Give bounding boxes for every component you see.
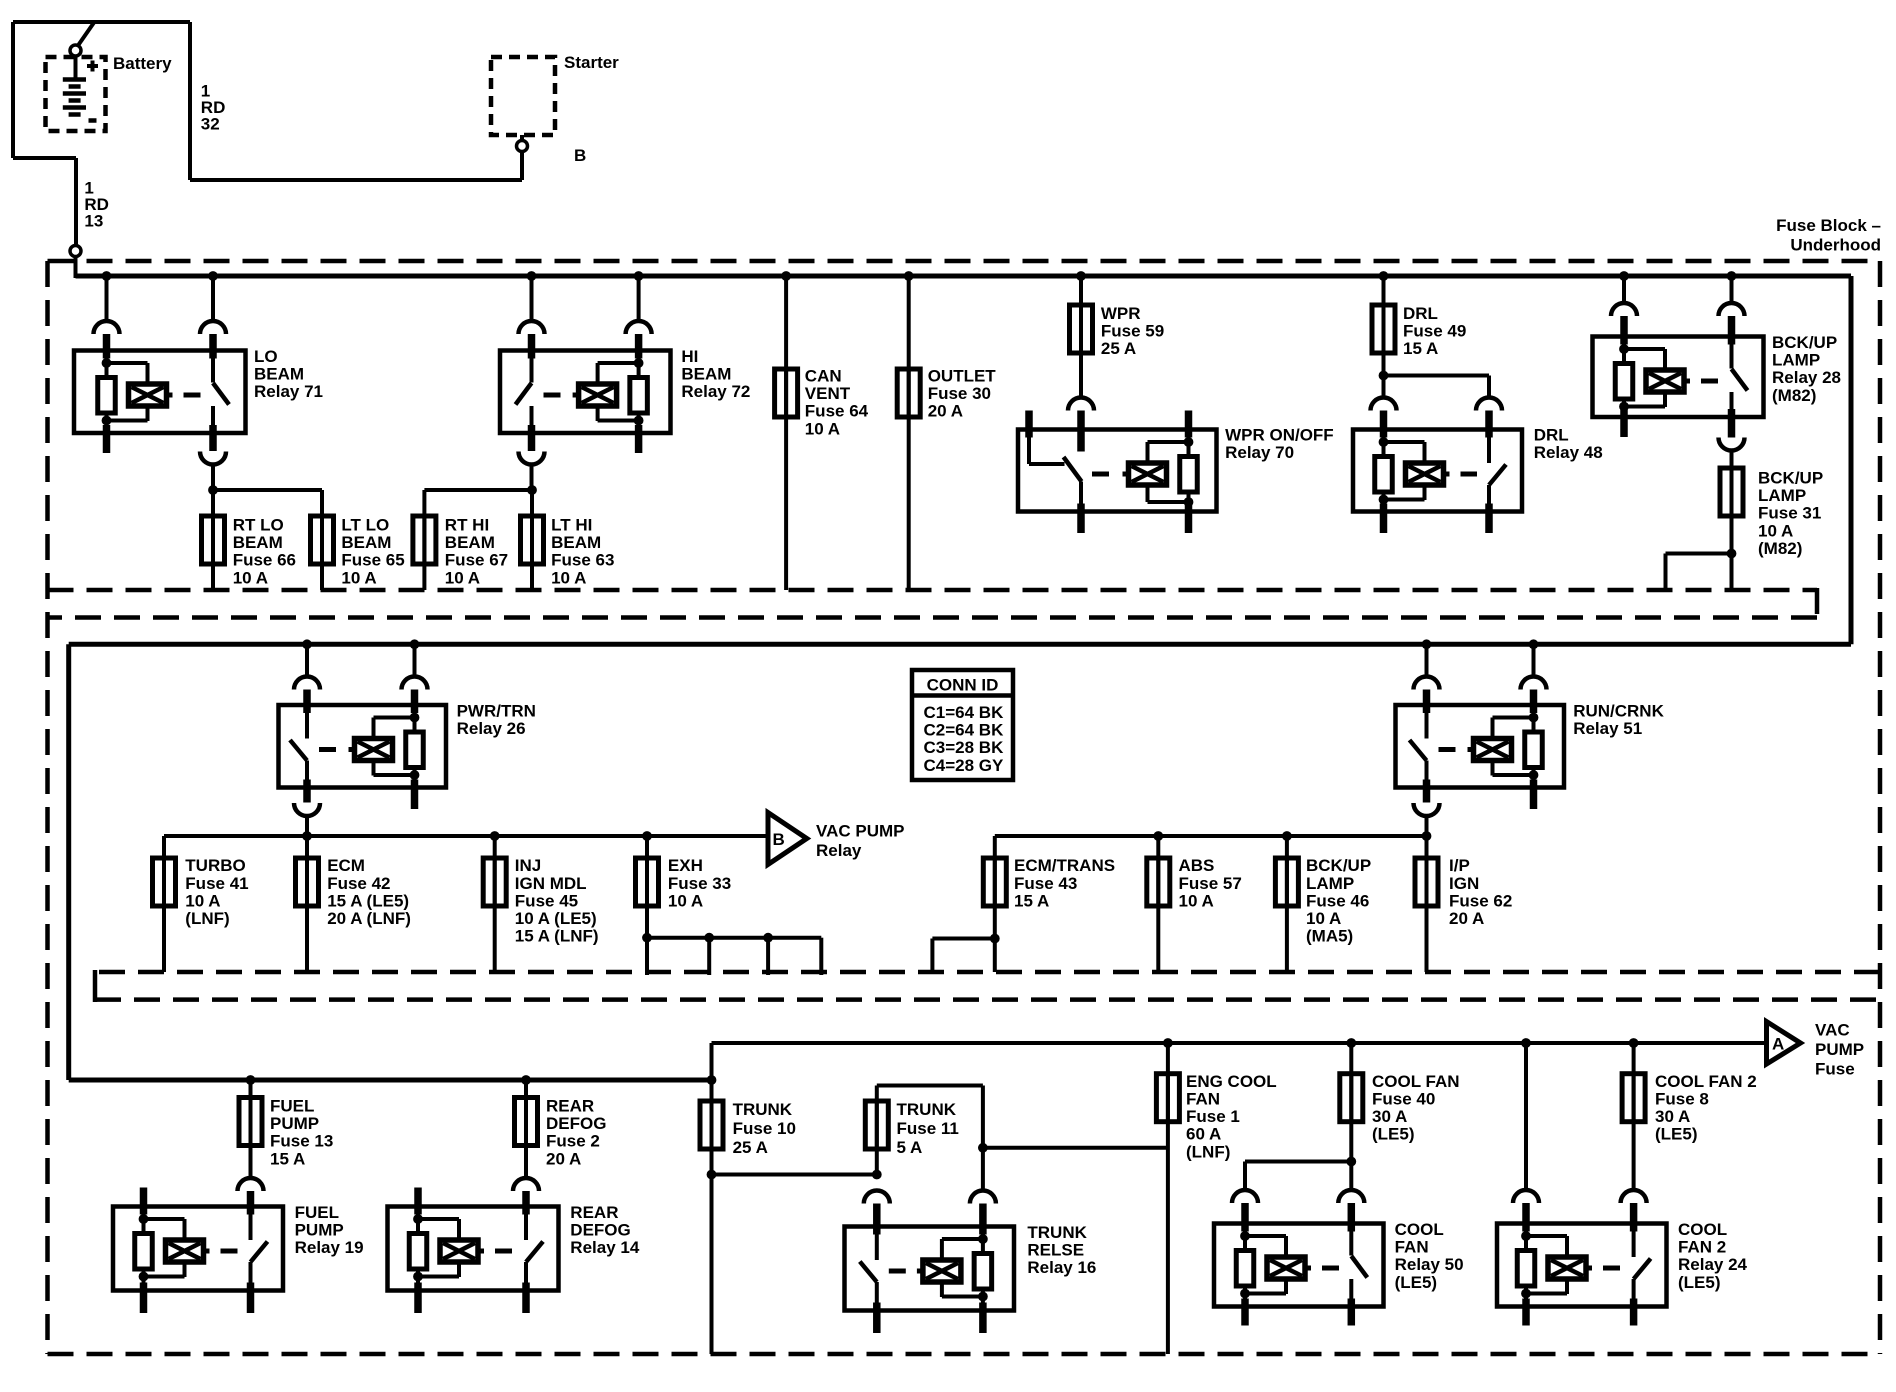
svg-text:10 A (LE5): 10 A (LE5) bbox=[515, 909, 597, 928]
svg-text:Fuse 2: Fuse 2 bbox=[546, 1132, 600, 1151]
resistor (LO BEAM Relay 71) bbox=[98, 378, 116, 414]
fuse F66 RT LO BEAM bbox=[211, 514, 215, 566]
svg-text:20 A: 20 A bbox=[928, 402, 963, 421]
fuse F2 REAR DEFOG bbox=[524, 1096, 528, 1148]
svg-text:VENT: VENT bbox=[805, 384, 851, 403]
connector LO beam output bbox=[200, 452, 226, 465]
node bus tap CAN VENT bbox=[781, 271, 791, 281]
svg-text:Fuse 59: Fuse 59 bbox=[1101, 322, 1164, 341]
wire BCKUP switch pin bbox=[1730, 276, 1734, 303]
svg-text:ECM: ECM bbox=[327, 856, 365, 875]
relay switch (COOL FAN 2 Relay 24) bbox=[1632, 1224, 1636, 1258]
svg-text:Fuse 66: Fuse 66 bbox=[233, 551, 296, 570]
node rail BCKUP fuse46 bbox=[1282, 831, 1292, 841]
svg-text:FAN: FAN bbox=[1186, 1090, 1220, 1109]
svg-text:Fuse Block –: Fuse Block – bbox=[1776, 216, 1881, 235]
connector HI beam pin1 bbox=[519, 321, 545, 334]
svg-text:Fuse 67: Fuse 67 bbox=[445, 551, 508, 570]
coil loop wire (LO BEAM Relay 71) bbox=[107, 361, 148, 365]
svg-text:(LNF): (LNF) bbox=[185, 909, 229, 928]
resistor (WPR relay) bbox=[1187, 430, 1191, 512]
svg-text:10 A: 10 A bbox=[1179, 891, 1214, 910]
wire COOL FAN 2 coil pin bbox=[1524, 1043, 1528, 1190]
wire OUTLET bbox=[907, 276, 911, 590]
svg-text:BEAM: BEAM bbox=[254, 365, 304, 384]
svg-text:BEAM: BEAM bbox=[681, 365, 731, 384]
node rail ABS bbox=[1153, 831, 1163, 841]
battery BAT bbox=[74, 57, 78, 78]
svg-text:Fuse 45: Fuse 45 bbox=[515, 891, 578, 910]
pin stub below PWR/TRN coil bbox=[411, 780, 419, 810]
svg-text:5 A: 5 A bbox=[897, 1138, 923, 1157]
svg-text:Fuse 62: Fuse 62 bbox=[1449, 891, 1512, 910]
node feed REAR DEFOG bbox=[521, 1075, 531, 1085]
relay coil (HI BEAM Relay 72) bbox=[579, 384, 617, 406]
node bus2 tap PWR/TRN switch bbox=[302, 639, 312, 649]
connector BCKUP output bbox=[1719, 438, 1745, 451]
resistor (REAR DEFOG Relay 14) bbox=[409, 1234, 427, 1270]
svg-text:20 A (LNF): 20 A (LNF) bbox=[327, 909, 411, 928]
resistor (TRUNK RELSE Relay 16) bbox=[974, 1254, 992, 1290]
svg-text:Relay 14: Relay 14 bbox=[570, 1238, 640, 1257]
svg-text:10 A: 10 A bbox=[805, 419, 840, 438]
battery plus bbox=[87, 64, 98, 68]
svg-text:10 A: 10 A bbox=[185, 891, 220, 910]
svg-text:Fuse 40: Fuse 40 bbox=[1372, 1090, 1435, 1109]
wire bus battery feed section1 bbox=[76, 274, 1852, 279]
connector TRUNK coil pin bbox=[970, 1191, 996, 1204]
relay switch (DRL Relay 48) bbox=[1487, 430, 1491, 464]
coil loop wire (COOL FAN 2 Relay 24) bbox=[1526, 1234, 1567, 1238]
pin stub FUEL PUMP coil top bbox=[140, 1188, 148, 1215]
svg-text:TRUNK: TRUNK bbox=[1027, 1223, 1087, 1242]
wire hi beam fuse link bbox=[527, 485, 537, 495]
wire bus section2 bbox=[69, 642, 1851, 647]
divider section1/2 bbox=[48, 588, 1818, 593]
fuse F33 EXH bbox=[645, 836, 649, 975]
fuse F46 BCK/UP LAMP bbox=[1285, 836, 1289, 972]
svg-text:Fuse 46: Fuse 46 bbox=[1306, 891, 1369, 910]
divider section2/3 bbox=[95, 970, 1880, 975]
svg-text:FAN 2: FAN 2 bbox=[1678, 1238, 1726, 1257]
resistor (FUEL PUMP Relay 19) bbox=[135, 1234, 153, 1270]
fuse F57 ABS bbox=[1156, 836, 1160, 972]
svg-text:Fuse 11: Fuse 11 bbox=[897, 1119, 959, 1138]
fuse F45 INJ IGN MDL bbox=[493, 836, 497, 972]
wire right side feed bbox=[1849, 276, 1854, 644]
resistor (BCK/UP LAMP Relay 28) bbox=[1615, 364, 1633, 400]
wire CAN VENT bbox=[784, 276, 788, 590]
relay switch (WPR ON/OFF Relay 70) bbox=[1027, 437, 1031, 464]
node feed FUEL PUMP bbox=[246, 1075, 256, 1085]
relay box (TRUNK RELSE Relay 16) bbox=[845, 1227, 1015, 1311]
node bus tap LO beam coil bbox=[102, 271, 112, 281]
svg-text:Fuse 49: Fuse 49 bbox=[1403, 322, 1466, 341]
node fuse43 branch bbox=[990, 934, 1000, 944]
svg-text:Fuse 64: Fuse 64 bbox=[805, 402, 869, 421]
svg-text:Starter: Starter bbox=[564, 53, 619, 72]
fuse F43 ECM/TRANS bbox=[993, 869, 997, 972]
svg-text:I/P: I/P bbox=[1449, 856, 1470, 875]
coil loop wire (TRUNK RELSE Relay 16) bbox=[942, 1237, 983, 1241]
resistor (HI BEAM Relay 72) bbox=[630, 378, 648, 414]
connector BCKUP pin1 bbox=[1611, 303, 1637, 316]
connector TRUNK switch pin bbox=[864, 1191, 890, 1204]
svg-text:C1=64 BK: C1=64 BK bbox=[924, 703, 1005, 722]
relay box (FUEL PUMP Relay 19) bbox=[113, 1207, 283, 1291]
svg-text:DRL: DRL bbox=[1534, 426, 1569, 445]
svg-text:10 A: 10 A bbox=[668, 891, 703, 910]
svg-text:INJ: INJ bbox=[515, 856, 541, 875]
resistor (PWR/TRN Relay 26) bbox=[406, 732, 424, 768]
node bus tap OUTLET bbox=[904, 271, 914, 281]
svg-text:(LE5): (LE5) bbox=[1372, 1125, 1415, 1144]
coil loop wire (HI BEAM Relay 72) bbox=[598, 361, 639, 365]
connector PWR/TRN pin2 bbox=[402, 677, 428, 690]
svg-text:COOL: COOL bbox=[1678, 1220, 1727, 1239]
pin stub below HI beam coil bbox=[635, 425, 643, 453]
svg-text:BCK/UP: BCK/UP bbox=[1306, 856, 1371, 875]
connector LO beam pin1 bbox=[94, 321, 120, 334]
relay coil (REAR DEFOG Relay 14) bbox=[440, 1240, 478, 1262]
svg-text:WPR: WPR bbox=[1101, 304, 1141, 323]
svg-text:CONN ID: CONN ID bbox=[927, 676, 999, 695]
svg-text:30 A: 30 A bbox=[1655, 1107, 1690, 1126]
wire DRL branch bbox=[1384, 374, 1490, 378]
coil loop wire (REAR DEFOG Relay 14) bbox=[418, 1217, 459, 1221]
node bus2 tap PWR/TRN coil bbox=[410, 639, 420, 649]
pin stub WPR resistor top bbox=[1185, 411, 1193, 438]
wire COOL FAN fuse bbox=[1349, 1043, 1353, 1190]
wire fuse43 branch bbox=[932, 937, 994, 941]
svg-text:RT LO: RT LO bbox=[233, 516, 284, 535]
svg-text:COOL FAN: COOL FAN bbox=[1372, 1072, 1460, 1091]
svg-text:Fuse 30: Fuse 30 bbox=[928, 384, 991, 403]
svg-text:13: 13 bbox=[84, 212, 103, 231]
fuse F42 ECM bbox=[305, 836, 309, 972]
svg-text:Relay 72: Relay 72 bbox=[681, 382, 750, 401]
relay coil (TRUNK RELSE Relay 16) bbox=[923, 1260, 961, 1282]
mechanical link WPR bbox=[1092, 472, 1122, 477]
fuse F63 LT HI BEAM bbox=[530, 514, 534, 566]
wire REAR DEFOG fuse bbox=[524, 1080, 528, 1178]
svg-text:CAN: CAN bbox=[805, 367, 842, 386]
wire lo beam fuse link bbox=[208, 485, 218, 495]
pin stub below REAR DEFOG switch bbox=[522, 1283, 530, 1314]
relay switch (TRUNK RELSE Relay 16) bbox=[875, 1227, 879, 1261]
svg-text:15 A (LE5): 15 A (LE5) bbox=[327, 891, 409, 910]
connector REAR DEFOG relay bbox=[513, 1178, 539, 1191]
svg-text:(LE5): (LE5) bbox=[1655, 1125, 1698, 1144]
node trunk split bbox=[707, 1170, 717, 1180]
svg-text:10 A: 10 A bbox=[445, 568, 480, 587]
pin stub below HI beam switch bbox=[528, 425, 536, 451]
svg-text:Relay 28: Relay 28 bbox=[1772, 368, 1841, 387]
node bus tap HI beam switch bbox=[527, 271, 537, 281]
relay coil (COOL FAN 2 Relay 24) bbox=[1548, 1257, 1586, 1279]
wire LO beam output bbox=[211, 465, 215, 491]
relay coil (DRL Relay 48) bbox=[1406, 463, 1444, 485]
svg-text:20 A: 20 A bbox=[546, 1149, 581, 1168]
wire RUN/CRNK pin1 bbox=[1425, 644, 1429, 676]
svg-text:Battery: Battery bbox=[113, 54, 172, 73]
svg-text:10 A: 10 A bbox=[551, 568, 586, 587]
fuse F1 ENG COOL FAN bbox=[1166, 1072, 1170, 1124]
svg-text:30 A: 30 A bbox=[1372, 1107, 1407, 1126]
connector COOL FAN pin1 bbox=[1232, 1190, 1258, 1203]
svg-text:FAN: FAN bbox=[1395, 1238, 1429, 1257]
svg-text:Fuse 8: Fuse 8 bbox=[1655, 1090, 1709, 1109]
relay switch (PWR/TRN Relay 26) bbox=[305, 705, 309, 739]
pin stub below TRUNK coil bbox=[979, 1303, 987, 1334]
relay switch (RUN/CRNK Relay 51) bbox=[1425, 705, 1429, 739]
relay switch (HI BEAM Relay 72) bbox=[530, 351, 534, 383]
wire BCKUP coil pin bbox=[1622, 276, 1626, 303]
wire DRL bbox=[1382, 276, 1386, 398]
svg-text:PUMP: PUMP bbox=[270, 1114, 319, 1133]
svg-text:ABS: ABS bbox=[1179, 856, 1215, 875]
wire PWR/TRN pin2 bbox=[413, 644, 417, 676]
svg-text:10 A: 10 A bbox=[233, 568, 268, 587]
node rail EXH bbox=[642, 831, 652, 841]
svg-text:VAC PUMP: VAC PUMP bbox=[816, 822, 904, 841]
node bus tap WPR bbox=[1076, 271, 1086, 281]
pin stub below BCKUP switch bbox=[1728, 409, 1736, 438]
fuse F65 LT LO BEAM bbox=[320, 516, 324, 590]
fuse F64 CAN VENT bbox=[784, 367, 788, 419]
svg-text:Fuse 65: Fuse 65 bbox=[341, 551, 404, 570]
svg-text:RT HI: RT HI bbox=[445, 516, 489, 535]
relay box (LO BEAM Relay 71) bbox=[74, 351, 246, 434]
svg-text:Fuse 31: Fuse 31 bbox=[1758, 504, 1821, 523]
resistor (COOL FAN 2 Relay 24) bbox=[1517, 1251, 1535, 1287]
connector HI beam pin2 bbox=[626, 321, 652, 334]
relay switch (LO BEAM Relay 71) bbox=[211, 351, 215, 383]
pin stub below LO beam coil bbox=[103, 425, 111, 453]
svg-text:PUMP: PUMP bbox=[295, 1221, 344, 1240]
svg-text:15 A: 15 A bbox=[1403, 339, 1438, 358]
pin stub below TRUNK switch bbox=[873, 1303, 881, 1334]
svg-text:EXH: EXH bbox=[668, 856, 703, 875]
svg-text:PWR/TRN: PWR/TRN bbox=[457, 702, 536, 721]
relay box (REAR DEFOG Relay 14) bbox=[388, 1207, 559, 1291]
svg-text:IGN MDL: IGN MDL bbox=[515, 874, 587, 893]
svg-text:LT HI: LT HI bbox=[551, 516, 592, 535]
pin stub below COOL FAN 2 switch bbox=[1630, 1299, 1638, 1326]
fuse F49 DRL bbox=[1382, 303, 1386, 355]
wire below fuse 31 bbox=[1730, 516, 1734, 590]
svg-text:PUMP: PUMP bbox=[1815, 1040, 1864, 1059]
relay box (RUN/CRNK Relay 51) bbox=[1396, 705, 1565, 788]
svg-text:LO: LO bbox=[254, 347, 278, 366]
svg-text:RELSE: RELSE bbox=[1027, 1241, 1084, 1260]
svg-text:REAR: REAR bbox=[570, 1203, 618, 1222]
wire trunk column bbox=[710, 1043, 714, 1354]
connector FUEL PUMP relay bbox=[238, 1178, 264, 1191]
node battery + terminal bbox=[70, 45, 81, 56]
wire PWR/TRN pin1 bbox=[305, 644, 309, 676]
svg-text:Fuse 41: Fuse 41 bbox=[185, 874, 248, 893]
pin stub below REAR DEFOG coil bbox=[414, 1283, 422, 1314]
relay coil (FUEL PUMP Relay 19) bbox=[166, 1240, 204, 1262]
svg-text:(LE5): (LE5) bbox=[1395, 1273, 1438, 1292]
svg-text:Underhood: Underhood bbox=[1790, 236, 1881, 255]
node rail INJ bbox=[490, 831, 500, 841]
svg-text:Relay: Relay bbox=[816, 841, 862, 860]
svg-text:(MA5): (MA5) bbox=[1306, 927, 1353, 946]
svg-text:COOL: COOL bbox=[1395, 1220, 1444, 1239]
wire ENG COOL FAN bbox=[1166, 1043, 1170, 1354]
svg-text:DEFOG: DEFOG bbox=[570, 1221, 630, 1240]
wire section2 right rail bbox=[995, 834, 1427, 838]
wire cool fan branch bbox=[1245, 1160, 1351, 1164]
svg-text:10 A: 10 A bbox=[1758, 521, 1793, 540]
wire RUN/CRNK pin2 bbox=[1532, 644, 1536, 676]
wire section3 feed horizontal bbox=[69, 1078, 712, 1083]
svg-text:LT LO: LT LO bbox=[341, 516, 389, 535]
node bus tap BCKUP switch bbox=[1727, 271, 1737, 281]
resistor (DRL Relay 48) bbox=[1375, 457, 1393, 493]
svg-text:Fuse 33: Fuse 33 bbox=[668, 874, 731, 893]
pin stub below COOL FAN switch bbox=[1348, 1299, 1356, 1326]
svg-text:C4=28 GY: C4=28 GY bbox=[924, 756, 1005, 775]
coil loop wire (COOL FAN Relay 50) bbox=[1245, 1234, 1286, 1238]
pin stub below WPR switch bbox=[1077, 504, 1085, 534]
svg-text:LAMP: LAMP bbox=[1772, 351, 1820, 370]
connector RUN/CRNK pin1 bbox=[1414, 677, 1440, 690]
pin stub below PWR/TRN switch bbox=[303, 780, 311, 803]
svg-text:TRUNK: TRUNK bbox=[897, 1100, 957, 1119]
svg-text:15 A: 15 A bbox=[1014, 891, 1049, 910]
svg-text:32: 32 bbox=[201, 115, 220, 134]
node feed COOL FAN 2 relay bbox=[1521, 1038, 1531, 1048]
node bus tap BCKUP coil bbox=[1619, 271, 1629, 281]
pin stub below DRL switch bbox=[1485, 504, 1493, 534]
svg-text:LAMP: LAMP bbox=[1306, 874, 1354, 893]
CONN ID table bbox=[912, 670, 1013, 780]
relay box (COOL FAN 2 Relay 24) bbox=[1497, 1224, 1667, 1307]
svg-text:Fuse 63: Fuse 63 bbox=[551, 551, 614, 570]
relay box (PWR/TRN Relay 26) bbox=[279, 705, 447, 788]
connector PWR/TRN output bbox=[294, 803, 320, 816]
svg-text:BEAM: BEAM bbox=[341, 533, 391, 552]
svg-text:ECM/TRANS: ECM/TRANS bbox=[1014, 856, 1115, 875]
coil loop wire (FUEL PUMP Relay 19) bbox=[144, 1217, 185, 1221]
wire to LO beam relay pin 2 bbox=[211, 276, 215, 321]
svg-text:(M82): (M82) bbox=[1758, 539, 1802, 558]
svg-text:10 A: 10 A bbox=[1306, 909, 1341, 928]
wire WPR bbox=[1079, 276, 1083, 398]
pin stub REAR DEFOG coil top bbox=[414, 1188, 422, 1215]
wire FUEL PUMP fuse bbox=[249, 1080, 253, 1178]
node rail ECM bbox=[302, 831, 312, 841]
svg-text:BCK/UP: BCK/UP bbox=[1758, 469, 1823, 488]
svg-text:(LE5): (LE5) bbox=[1678, 1273, 1721, 1292]
wire COOL FAN 2 fuse bbox=[1632, 1043, 1636, 1190]
svg-text:RUN/CRNK: RUN/CRNK bbox=[1573, 702, 1664, 721]
svg-text:Relay 16: Relay 16 bbox=[1027, 1258, 1096, 1277]
connector COOL FAN 2 pin1 bbox=[1513, 1190, 1539, 1203]
relay box (COOL FAN Relay 50) bbox=[1214, 1224, 1384, 1307]
svg-text:10 A: 10 A bbox=[341, 568, 376, 587]
fuse F41 TURBO bbox=[162, 869, 166, 972]
pin stub below FUEL PUMP switch bbox=[247, 1283, 255, 1314]
relay coil (COOL FAN Relay 50) bbox=[1267, 1257, 1305, 1279]
node feed COOL FAN bbox=[1346, 1038, 1356, 1048]
svg-text:Relay 71: Relay 71 bbox=[254, 382, 323, 401]
node bus2 tap RUN/CRNK switch bbox=[1422, 639, 1432, 649]
node bus2 tap RUN/CRNK coil bbox=[1529, 639, 1539, 649]
svg-text:Fuse 1: Fuse 1 bbox=[1186, 1107, 1240, 1126]
svg-text:FUEL: FUEL bbox=[295, 1203, 339, 1222]
node bus tap HI beam coil bbox=[634, 271, 644, 281]
svg-text:15 A (LNF): 15 A (LNF) bbox=[515, 927, 599, 946]
relay switch (FUEL PUMP Relay 19) bbox=[249, 1207, 253, 1241]
wire 1 RD 13 bbox=[70, 246, 81, 257]
svg-text:Relay 70: Relay 70 bbox=[1225, 443, 1294, 462]
svg-text:LAMP: LAMP bbox=[1758, 486, 1806, 505]
svg-text:TRUNK: TRUNK bbox=[733, 1100, 793, 1119]
node cool fan branch bbox=[1346, 1157, 1356, 1167]
svg-text:FUEL: FUEL bbox=[270, 1097, 314, 1116]
pin stub below COOL FAN 2 coil bbox=[1522, 1299, 1530, 1326]
node trunk relay coil feed bbox=[978, 1143, 988, 1153]
svg-text:B: B bbox=[773, 830, 785, 849]
fuse block underhood boundary bbox=[48, 259, 1881, 264]
svg-text:Relay 24: Relay 24 bbox=[1678, 1255, 1748, 1274]
wire fuse31 branch bbox=[1666, 552, 1732, 556]
connector RUN/CRNK pin2 bbox=[1521, 677, 1547, 690]
pin stub below LO beam switch bbox=[209, 425, 217, 451]
wire HI beam output bbox=[530, 465, 534, 491]
wire to LO beam relay pin 1 bbox=[105, 276, 109, 321]
wire left side feed section3 bbox=[66, 644, 71, 1080]
svg-text:OUTLET: OUTLET bbox=[928, 367, 997, 386]
resistor (COOL FAN Relay 50) bbox=[1236, 1251, 1254, 1287]
svg-text:ENG COOL: ENG COOL bbox=[1186, 1072, 1277, 1091]
node bus tap LO beam switch bbox=[208, 271, 218, 281]
connector BCKUP pin2 bbox=[1719, 303, 1745, 316]
fuse F10 TRUNK bbox=[710, 1099, 714, 1151]
svg-text:25 A: 25 A bbox=[733, 1138, 768, 1157]
wire to HI beam relay pin 1 bbox=[530, 276, 534, 321]
pin stub below COOL FAN coil bbox=[1241, 1299, 1249, 1326]
coil loop wire (BCK/UP LAMP Relay 28) bbox=[1624, 347, 1665, 351]
svg-text:Relay 19: Relay 19 bbox=[295, 1238, 364, 1257]
connector RUN/CRNK output bbox=[1414, 803, 1440, 816]
battery minus bbox=[89, 118, 97, 123]
connector LO beam pin2 bbox=[200, 321, 226, 334]
coil loop wire (DRL Relay 48) bbox=[1384, 440, 1425, 444]
svg-text:(M82): (M82) bbox=[1772, 386, 1816, 405]
svg-text:B: B bbox=[574, 146, 586, 165]
wire section2 left rail bbox=[164, 834, 768, 838]
svg-text:(LNF): (LNF) bbox=[1186, 1142, 1230, 1161]
wire 1 RD 32 bbox=[188, 22, 192, 180]
connector COOL FAN 2 pin2 bbox=[1621, 1190, 1647, 1203]
wire PWR/TRN output bbox=[305, 816, 309, 836]
connector HI beam output bbox=[519, 452, 545, 465]
svg-text:DEFOG: DEFOG bbox=[546, 1114, 606, 1133]
node feed ENG COOL FAN bbox=[1163, 1038, 1173, 1048]
svg-text:HI: HI bbox=[681, 347, 698, 366]
svg-text:VAC: VAC bbox=[1815, 1021, 1850, 1040]
relay coil (BCK/UP LAMP Relay 28) bbox=[1646, 370, 1684, 392]
fuse F8 COOL FAN 2 bbox=[1632, 1072, 1636, 1124]
svg-text:Fuse 42: Fuse 42 bbox=[327, 874, 390, 893]
wire EXH comb bbox=[642, 933, 652, 943]
pin stub below BCKUP coil bbox=[1620, 409, 1628, 437]
